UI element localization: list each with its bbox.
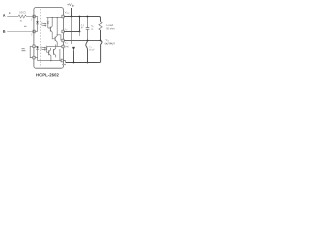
photodiode D1 (47, 18, 50, 29)
polarity mark on input A (9, 12, 11, 14)
wire below +VB node (71, 17, 73, 45)
RL bottom lead (100, 30, 102, 41)
transistor Q4 (53, 49, 55, 55)
wire pin2 to LED1 anode (35, 17, 37, 22)
node dot C1 bottom (87, 40, 89, 42)
pin 5 GND label (65, 46, 69, 47)
CL label (89, 46, 90, 48)
LED2 cathode wire down (37, 49, 39, 60)
wire input B (7, 31, 33, 33)
node dot rail drop top (79, 16, 81, 18)
+VB supply wire (71, 8, 73, 17)
load value label (106, 28, 114, 30)
wire pin to LED2 (35, 45, 38, 47)
transistor Q3 (48, 50, 50, 55)
resistor R1 (18, 15, 27, 18)
node dot C1 top (87, 16, 89, 18)
light arrows ch1 (41, 23, 46, 27)
light arrows ch2 (41, 47, 46, 51)
photodiode D2 (45, 46, 48, 53)
wire input A (7, 16, 18, 18)
pin 4 wire (35, 57, 38, 59)
input B label (3, 30, 5, 33)
node dot C1/ground bus (87, 62, 89, 64)
pin 8 VCC label (65, 11, 67, 13)
pin box E2 (61, 59, 63, 62)
VCC rail wire (64, 17, 100, 22)
resistor R1 value label (19, 11, 25, 13)
wire R1 to pin 2 (27, 16, 34, 18)
C1 value label left (81, 24, 84, 25)
LED1 (36, 21, 39, 24)
detector VCC rail (46, 17, 62, 19)
ground bus wire (66, 62, 98, 64)
Q4 collector drop wire (59, 49, 61, 61)
pin 2 box (33, 15, 35, 18)
node dot +VB/rail (71, 16, 73, 18)
node dot RL bottom / VO (100, 40, 102, 42)
pin 5 label smudge (62, 64, 66, 65)
pin 4 box (33, 56, 35, 59)
transistor Q2 (54, 37, 56, 41)
wire VE pin to rail drop (64, 31, 79, 33)
Vo output label (106, 39, 109, 41)
pin 6 box VO (62, 39, 64, 42)
optical isolation dashed line (40, 9, 42, 66)
ground triangle (72, 47, 75, 50)
pin 5 box GND (62, 45, 64, 48)
CL value label (89, 49, 94, 51)
ch2 bottom rail to pin 5' (38, 60, 62, 62)
jog E2 pin to ground bus (63, 61, 65, 63)
Vo output sublabel (105, 43, 115, 45)
node dot Q2 collector/rail (57, 17, 58, 18)
pin 7 number (81, 26, 82, 28)
pin 7 box VE (62, 30, 64, 33)
node dot ground wire/bus (73, 62, 75, 64)
load resistor RL (99, 22, 102, 30)
stray label below resistor (20, 20, 27, 27)
optocoupler U1 package outline (34, 8, 64, 69)
jumper label (22, 48, 26, 51)
node dot Q3 emitter / ch2 rail (50, 60, 51, 61)
pin 3 box (33, 30, 35, 33)
pin 2 number (31, 19, 32, 21)
pin 3 number (31, 34, 32, 36)
stub below VE node (79, 32, 81, 37)
C1 wire to ground bus (S-jog) (86, 41, 88, 63)
external jumper pin3'-pin4 (30, 46, 33, 57)
transistor Q1 (49, 27, 51, 32)
node dot collector tap (57, 34, 58, 35)
LED1 cathode wire to pin3 (35, 24, 37, 32)
node dot VE wire (79, 31, 81, 33)
pin 8 box VCC (62, 15, 64, 18)
+VB supply label (67, 3, 71, 6)
input A label (3, 14, 6, 17)
pin 6 VO label (65, 42, 67, 44)
VO tap jog and down wire (98, 41, 102, 63)
ch1 ground rail (47, 46, 62, 48)
load label (107, 24, 113, 26)
C1 value label right (91, 25, 92, 26)
pin 7 VE label (65, 28, 66, 30)
LED2 (36, 47, 39, 49)
wire collector to pin 6 (57, 35, 61, 41)
pin ch2 anode box (33, 45, 35, 48)
rail drop wire (79, 17, 81, 32)
node dot Q1 collector/rail (52, 17, 53, 18)
ground triangle wire to bus (73, 50, 75, 62)
U1 part number label (36, 73, 58, 76)
bypass capacitor C1 (86, 17, 90, 41)
VO output wire (64, 40, 100, 42)
